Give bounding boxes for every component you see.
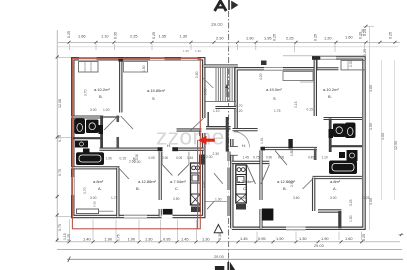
svg-text:1.90: 1.90 xyxy=(128,236,136,241)
svg-text:a.19.85m²: a.19.85m² xyxy=(147,88,166,93)
svg-text:0.25: 0.25 xyxy=(67,31,71,38)
stair risers (vertical) xyxy=(216,68,234,102)
bathroom fixtures right (black) xyxy=(345,123,356,139)
svg-text:1.75: 1.75 xyxy=(111,196,118,200)
dim row left unit rooms xyxy=(135,150,328,160)
svg-text:2.56: 2.56 xyxy=(240,196,247,200)
svg-text:C.: C. xyxy=(175,186,179,191)
svg-text:1.10: 1.10 xyxy=(322,155,328,159)
svg-text:0.25: 0.25 xyxy=(314,34,318,41)
svg-text:S: S xyxy=(152,96,155,101)
svg-text:0.75: 0.75 xyxy=(58,224,62,231)
svg-text:1.60: 1.60 xyxy=(345,236,353,241)
bath top wall right xyxy=(324,117,363,120)
closet south wall right xyxy=(316,67,339,70)
wall B/S xyxy=(119,59,122,113)
wall B2/C xyxy=(159,152,162,200)
svg-text:3.90: 3.90 xyxy=(202,181,206,188)
svg-text:A.: A. xyxy=(333,186,337,191)
bottom tick line xyxy=(57,241,400,243)
window right unit bottom wall xyxy=(286,226,306,230)
hall wall xyxy=(116,116,119,123)
radiator under window room A xyxy=(77,209,99,214)
bath side wall right xyxy=(329,119,332,153)
stair shaft lower east wall xyxy=(228,152,231,161)
svg-text:3.00: 3.00 xyxy=(330,196,337,200)
bath divider right xyxy=(330,145,362,147)
hall side wall right xyxy=(314,149,317,161)
svg-text:1.90: 1.90 xyxy=(105,236,113,241)
svg-text:0.15: 0.15 xyxy=(307,108,314,112)
svg-text:a.10.2m²: a.10.2m² xyxy=(94,87,110,92)
windows left unit top wall xyxy=(79,57,198,61)
section line A-A vertical dash-dot xyxy=(228,11,230,268)
svg-text:1.30: 1.30 xyxy=(180,34,188,39)
svg-text:0.90: 0.90 xyxy=(93,201,97,207)
svg-text:1.90: 1.90 xyxy=(276,236,284,241)
svg-text:3.70: 3.70 xyxy=(83,187,87,194)
svg-text:2.90: 2.90 xyxy=(216,36,224,41)
shaft door swing xyxy=(214,173,223,183)
svg-text:B.: B. xyxy=(328,94,332,99)
loggia walls right xyxy=(318,209,341,212)
door jambs right unit entry xyxy=(230,146,238,148)
svg-text:B.: B. xyxy=(136,186,140,191)
entry door swing xyxy=(207,201,215,209)
shaft mid line xyxy=(206,201,228,203)
thin projection line xyxy=(283,55,366,57)
svg-text:1.35: 1.35 xyxy=(159,34,167,39)
corridor wall mid xyxy=(204,126,231,130)
main horizontal wall xyxy=(100,147,204,150)
wall A/B2 xyxy=(116,168,119,217)
svg-text:4.60: 4.60 xyxy=(381,133,385,140)
door swing room A xyxy=(118,167,129,179)
hall north wall right unit xyxy=(233,128,258,131)
svg-text:1.60: 1.60 xyxy=(345,35,353,40)
svg-text:0.25: 0.25 xyxy=(349,199,353,206)
wall below bath right xyxy=(313,176,363,179)
top jog wall xyxy=(315,56,318,70)
svg-text:12.08: 12.08 xyxy=(58,99,62,108)
extension lines top xyxy=(70,44,365,52)
svg-text:0.75: 0.75 xyxy=(58,135,62,142)
LEFT UNIT outer wall xyxy=(73,59,204,217)
svg-text:1.45: 1.45 xyxy=(243,155,250,159)
svg-text:0.90: 0.90 xyxy=(162,156,168,160)
svg-text:0.90: 0.90 xyxy=(266,155,272,159)
section marker A top xyxy=(215,1,227,11)
window left unit west wall (room A) xyxy=(71,177,75,195)
svg-text:1.95: 1.95 xyxy=(264,36,272,41)
svg-text:0.95: 0.95 xyxy=(258,236,266,241)
room labels left unit xyxy=(93,87,186,191)
svg-text:12.50: 12.50 xyxy=(394,141,398,150)
triangle entrance marker xyxy=(214,225,222,233)
hall south wall right xyxy=(232,161,270,164)
svg-text:1.50: 1.50 xyxy=(349,215,353,222)
svg-text:1.90: 1.90 xyxy=(246,36,254,41)
sill line right S xyxy=(300,81,314,83)
stair shaft side wall xyxy=(226,117,229,152)
svg-text:S: S xyxy=(273,96,276,101)
svg-text:29.00: 29.00 xyxy=(211,22,223,27)
svg-text:0.45: 0.45 xyxy=(308,155,314,159)
closet top-right xyxy=(341,60,365,70)
svg-text:0.25: 0.25 xyxy=(363,49,367,56)
svg-text:1.30: 1.30 xyxy=(215,198,222,202)
interior dimension texts right xyxy=(206,60,370,222)
handrail stub xyxy=(207,112,209,127)
S room niche wall xyxy=(177,128,203,131)
window left unit bottom wall xyxy=(124,215,147,219)
stair landing south wall xyxy=(215,106,236,109)
svg-text:0.25: 0.25 xyxy=(389,32,393,39)
kitchen top dark bit left xyxy=(199,155,205,165)
svg-text:1.90: 1.90 xyxy=(106,157,113,161)
svg-text:1.20: 1.20 xyxy=(236,109,243,113)
interior dimension texts left xyxy=(83,65,243,201)
entry step right (black) xyxy=(262,209,274,221)
svg-text:0.05: 0.05 xyxy=(149,156,155,160)
bath top wall xyxy=(71,116,103,119)
svg-text:1.00: 1.00 xyxy=(103,108,110,112)
svg-text:3.00: 3.00 xyxy=(369,198,373,205)
svg-text:2.30: 2.30 xyxy=(206,155,213,159)
svg-text:B.: B. xyxy=(99,94,103,99)
svg-text:1.30: 1.30 xyxy=(145,236,153,241)
bath side wall xyxy=(100,116,103,151)
svg-text:A.: A. xyxy=(98,186,102,191)
svg-text:3.15: 3.15 xyxy=(294,101,298,108)
svg-text:0.15: 0.15 xyxy=(120,157,127,161)
svg-text:3.00: 3.00 xyxy=(90,196,97,200)
wardrobe top of S xyxy=(124,62,148,73)
svg-text:B.: B. xyxy=(283,186,287,191)
svg-text:2.25: 2.25 xyxy=(286,36,294,41)
svg-text:1.30: 1.30 xyxy=(299,236,307,241)
door swings right double xyxy=(247,165,256,184)
entry step left (black) xyxy=(163,209,173,217)
svg-text:3.70: 3.70 xyxy=(84,89,88,96)
svg-text:2.20: 2.20 xyxy=(361,29,365,36)
main horizontal wall right (north) xyxy=(261,147,317,150)
stair diagonal xyxy=(203,78,213,88)
svg-text:3.85: 3.85 xyxy=(369,85,373,92)
kitchen appliance column left xyxy=(191,163,201,205)
extension lines to left dim xyxy=(57,56,71,58)
svg-text:3.60: 3.60 xyxy=(293,196,300,200)
wardrobe under top wall right S xyxy=(283,72,313,81)
svg-text:2.50: 2.50 xyxy=(173,197,180,201)
svg-text:0.25: 0.25 xyxy=(362,234,366,241)
svg-text:5.50: 5.50 xyxy=(204,88,208,95)
svg-text:1.35: 1.35 xyxy=(183,49,189,53)
wall B2/C right xyxy=(259,150,262,200)
svg-text:2.25: 2.25 xyxy=(130,34,138,39)
svg-text:a.8m²: a.8m² xyxy=(330,179,341,184)
svg-text:0.25: 0.25 xyxy=(152,32,156,39)
svg-text:C.: C. xyxy=(243,186,247,191)
svg-text:1.10: 1.10 xyxy=(101,34,109,39)
svg-text:0.05: 0.05 xyxy=(176,156,182,160)
svg-text:1.40: 1.40 xyxy=(83,236,91,241)
svg-text:3.00: 3.00 xyxy=(90,108,97,112)
bath divider xyxy=(71,137,102,139)
svg-text:1.20: 1.20 xyxy=(324,36,332,41)
svg-text:0.75: 0.75 xyxy=(253,155,260,159)
svg-text:1.45: 1.45 xyxy=(187,156,193,160)
svg-text:1.50: 1.50 xyxy=(142,65,146,72)
room labels right unit xyxy=(238,87,341,191)
svg-text:1.45: 1.45 xyxy=(240,236,248,241)
svg-text:1.30: 1.30 xyxy=(195,49,201,53)
svg-text:2.00: 2.00 xyxy=(134,160,141,164)
tick far right bottom xyxy=(399,234,404,236)
top dimension faint line xyxy=(58,46,398,48)
svg-text:0.95: 0.95 xyxy=(163,236,171,241)
red arrow xyxy=(198,136,215,145)
bottom overall line xyxy=(57,248,402,250)
svg-text:H.: H. xyxy=(242,143,246,148)
red stub down xyxy=(197,140,199,229)
svg-text:a.10.2m²: a.10.2m² xyxy=(323,87,339,92)
top dimension numbers xyxy=(67,29,393,41)
kitchen appliance column right xyxy=(236,165,247,203)
stair up arrow xyxy=(226,87,228,97)
svg-text:1.80: 1.80 xyxy=(290,150,294,156)
svg-text:0.75: 0.75 xyxy=(117,234,121,241)
top-right window thin lines xyxy=(321,56,337,58)
stair landing line xyxy=(206,101,237,103)
svg-text:H.: H. xyxy=(167,143,171,148)
svg-text:a.19.0m²: a.19.0m² xyxy=(266,87,282,92)
door swing right A xyxy=(303,178,314,189)
svg-text:0.05: 0.05 xyxy=(278,155,284,159)
svg-text:0.25: 0.25 xyxy=(273,34,277,41)
section marker bottom (cut off) xyxy=(215,266,224,270)
closet top-left xyxy=(79,62,99,73)
pilaster right dim xyxy=(261,61,267,66)
svg-text:0.75: 0.75 xyxy=(58,169,62,176)
bottom dimension numbers row xyxy=(63,233,366,241)
svg-text:1.50: 1.50 xyxy=(369,123,373,130)
door swing into bath xyxy=(104,118,117,131)
svg-text:4.20: 4.20 xyxy=(259,73,263,80)
wall A/B2 right xyxy=(312,178,315,212)
red unit outline xyxy=(72,58,200,228)
svg-text:a.7.94m²: a.7.94m² xyxy=(238,179,254,184)
door gap on right wall of S xyxy=(202,118,207,133)
svg-text:0.70: 0.70 xyxy=(236,104,243,108)
wall below bath xyxy=(71,166,120,169)
svg-text:1.30: 1.30 xyxy=(202,236,210,241)
RIGHT UNIT outer wall xyxy=(232,58,364,228)
door arc hall right xyxy=(234,132,250,148)
entry gap left unit bottom wall xyxy=(162,215,173,219)
stairwell top wall xyxy=(204,64,238,67)
top dimension tick line xyxy=(58,41,400,43)
right vertical dimension lines xyxy=(369,26,371,230)
wall S/B right xyxy=(314,60,317,117)
svg-text:0.35: 0.35 xyxy=(114,32,118,39)
svg-text:29.00: 29.00 xyxy=(214,254,225,259)
svg-text:0.25: 0.25 xyxy=(67,234,71,241)
svg-text:1.90: 1.90 xyxy=(321,236,329,241)
door swings hallway double xyxy=(162,164,172,175)
svg-text:2.90: 2.90 xyxy=(290,180,294,187)
window right unit top wall xyxy=(264,67,283,71)
svg-text:0.25: 0.25 xyxy=(363,196,370,200)
svg-text:29.00: 29.00 xyxy=(314,243,325,248)
svg-text:a.7.94m²: a.7.94m² xyxy=(170,179,186,184)
svg-text:1.66: 1.66 xyxy=(78,34,86,39)
svg-text:a.12.86m²: a.12.86m² xyxy=(138,179,157,184)
svg-text:1.10: 1.10 xyxy=(213,109,220,113)
extension lines bottom xyxy=(70,220,362,241)
svg-text:1.45: 1.45 xyxy=(181,236,189,241)
door swing room B xyxy=(121,116,133,129)
svg-text:1.91: 1.91 xyxy=(260,137,264,144)
svg-text:0.30: 0.30 xyxy=(218,233,222,240)
svg-text:a.8m²: a.8m² xyxy=(93,179,104,184)
svg-text:2.80: 2.80 xyxy=(195,71,199,78)
left vertical dimension line xyxy=(56,50,58,242)
bathroom fixtures left (black) xyxy=(75,119,86,135)
svg-text:2.30: 2.30 xyxy=(349,60,353,67)
svg-text:2.30: 2.30 xyxy=(213,152,220,156)
svg-text:1.75: 1.75 xyxy=(274,109,281,113)
door into right B xyxy=(275,151,287,166)
